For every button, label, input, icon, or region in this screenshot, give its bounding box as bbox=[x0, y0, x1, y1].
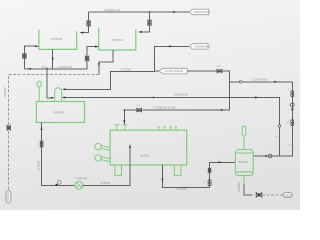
wire blowdown inlet to BD001 bbox=[263, 154, 272, 158]
off-page connector DRAIN bottom-left bbox=[6, 191, 11, 203]
svg-text:N.C.: N.C. bbox=[288, 145, 293, 147]
boiler leg right bbox=[174, 165, 181, 175]
arrow down on blowdown drop bbox=[161, 179, 163, 183]
svg-text:CST0080 1IN: CST0080 1IN bbox=[104, 8, 120, 12]
burner 2 bbox=[95, 155, 110, 162]
arrow on blowdown into BD001 bbox=[218, 161, 222, 163]
wire tanks fill header bbox=[24, 68, 87, 70]
svg-text:BDV001: BDV001 bbox=[239, 160, 249, 164]
arrow into dome base bbox=[62, 96, 66, 98]
svg-text:PLANT STEAM: PLANT STEAM bbox=[165, 69, 183, 73]
arrow into FWT001 bottom bbox=[95, 46, 99, 48]
svg-text:1": 1" bbox=[204, 170, 206, 172]
tank FWT002 bbox=[39, 30, 77, 50]
node junction on fill header bbox=[46, 68, 48, 70]
svg-text:CST0080: CST0080 bbox=[37, 160, 40, 171]
svg-text:CST0080 1IN SCH40: CST0080 1IN SCH40 bbox=[153, 107, 177, 110]
valve on blowdown riser bbox=[208, 168, 211, 186]
burner 1 bbox=[95, 143, 110, 150]
fitting circle on branch east bbox=[239, 81, 241, 83]
wire pump discharge into boiler bbox=[83, 145, 130, 185]
arrow into dome top bbox=[62, 88, 66, 90]
flange on boiler feed stub bbox=[114, 125, 128, 130]
vessel deaerator FWD001 bbox=[36, 102, 84, 123]
wire deaerator outlet to pump bbox=[42, 123, 76, 186]
arrow on service water header bbox=[173, 11, 177, 13]
node corner dot line C bbox=[123, 109, 125, 111]
svg-text:FWT001: FWT001 bbox=[53, 111, 65, 115]
node junction on service header bbox=[149, 11, 151, 13]
svg-text:N.C.: N.C. bbox=[276, 137, 281, 139]
valve globe lower on right drop bbox=[291, 120, 294, 126]
svg-text:CST0080: CST0080 bbox=[177, 188, 188, 191]
fitting circle on header B drop bbox=[278, 125, 280, 127]
arrow on fill header bbox=[27, 68, 31, 70]
valve on pump suction bbox=[40, 141, 43, 147]
valve on line C bbox=[137, 108, 142, 112]
svg-text:1": 1" bbox=[204, 182, 206, 184]
valve on FWT002 fill drop bbox=[87, 21, 90, 27]
svg-text:CST0080: CST0080 bbox=[238, 182, 241, 193]
arrow on header B bbox=[255, 96, 259, 98]
svg-text:CST0080 1IN: CST0080 1IN bbox=[58, 66, 73, 69]
valve ball on BD001 drain bbox=[256, 193, 262, 197]
svg-text:CST0080 1IN: CST0080 1IN bbox=[174, 94, 189, 97]
valve on plant steam line bbox=[217, 69, 222, 73]
wire FWT002 fill inlet bottom bbox=[24, 46, 36, 69]
wire drain header dashed bbox=[8, 74, 99, 190]
check valve before pump bbox=[55, 180, 61, 186]
wire steam branch east bbox=[230, 82, 293, 156]
off-page connector PLANT STEAM bbox=[158, 68, 187, 74]
boiler BL001 bbox=[110, 130, 187, 165]
valve on left drain line bbox=[7, 125, 10, 130]
safety valve stubs on boiler top bbox=[157, 127, 177, 130]
arrow on FWT001 drain downcomer bbox=[98, 63, 100, 67]
svg-text:1": 1" bbox=[37, 144, 39, 146]
arrow into dome left bbox=[51, 97, 55, 99]
svg-text:BL001: BL001 bbox=[141, 153, 150, 157]
arrow on FWT002 drain bbox=[52, 58, 54, 62]
svg-text:DRAIN: DRAIN bbox=[6, 193, 10, 201]
off-page connector SERVICE WATER bbox=[189, 9, 210, 15]
relief vent pill on deaerator bbox=[37, 81, 41, 101]
svg-text:1": 1" bbox=[288, 89, 290, 91]
off-page connector CONDENSATE bbox=[189, 44, 210, 50]
valve ball on FWT001 inlet riser bbox=[85, 56, 89, 61]
wire FWT002 drain bbox=[52, 49, 54, 68]
svg-text:CST0080 1IN: CST0080 1IN bbox=[253, 79, 268, 82]
arrow on line C near corner bbox=[219, 109, 223, 111]
vessel BD001 neck bbox=[242, 126, 246, 149]
wire BD001 bottom drain bbox=[244, 184, 253, 195]
arrow on condensate line to label bbox=[169, 45, 173, 47]
arrow into FWT001 top bbox=[138, 31, 142, 33]
wire dashed to drain label bbox=[262, 194, 283, 196]
arrow on branch east bbox=[274, 81, 278, 83]
wire FWT001 drain bbox=[99, 50, 113, 74]
svg-text:DRAIN: DRAIN bbox=[285, 194, 293, 197]
tank FWT001 bbox=[99, 28, 136, 50]
svg-text:1": 1" bbox=[83, 24, 85, 26]
node junction on header B bbox=[153, 97, 155, 99]
arrow into FWT002 top bbox=[80, 32, 84, 34]
wire deaerator dome feed bbox=[47, 69, 52, 98]
wire steam header B bbox=[64, 98, 279, 157]
off-page connector DRAIN bottom-right bbox=[283, 193, 292, 198]
svg-text:CST0080: CST0080 bbox=[121, 69, 132, 72]
vessel BD001 body bbox=[235, 150, 253, 176]
valve globe upper on right drop bbox=[291, 91, 294, 97]
valve ball on FWT002 inlet riser bbox=[23, 54, 27, 59]
deaerator dome bbox=[55, 88, 62, 102]
arrow up inside boiler bbox=[129, 144, 131, 148]
svg-text:CONDENSATE: CONDENSATE bbox=[194, 45, 211, 48]
wire condensate return line A bbox=[65, 46, 190, 89]
wire BD001 drain green stub bbox=[243, 176, 245, 184]
arrow up on deaerator outlet bbox=[40, 126, 42, 130]
svg-text:POT: POT bbox=[217, 66, 222, 68]
valve control mid on right drop bbox=[290, 103, 294, 111]
wire FWT001 fill inlet bottom bbox=[87, 47, 96, 69]
svg-text:FWT002: FWT002 bbox=[51, 37, 63, 41]
svg-text:FWT001: FWT001 bbox=[112, 38, 124, 42]
wire service water header bbox=[89, 11, 189, 13]
svg-text:CST0080: CST0080 bbox=[4, 87, 7, 98]
arrow into FWT002 bottom bbox=[35, 45, 39, 47]
svg-text:1": 1" bbox=[288, 105, 290, 107]
wire fill drop to FWT002 bbox=[81, 12, 89, 33]
valve on FWT001 fill drop bbox=[148, 20, 151, 26]
svg-text:FWP001: FWP001 bbox=[76, 177, 88, 181]
wire boiler blowdown bbox=[162, 162, 235, 187]
wire plant steam line R bbox=[124, 71, 229, 124]
arrow down into boiler stub bbox=[123, 120, 125, 124]
wire plant steam stub bbox=[154, 70, 158, 72]
svg-text:N.C.: N.C. bbox=[137, 105, 142, 107]
boiler leg left bbox=[115, 165, 122, 175]
svg-text:SERVICE WTR: SERVICE WTR bbox=[194, 11, 211, 14]
pump FWP001 bbox=[75, 182, 83, 190]
svg-text:CST0080: CST0080 bbox=[100, 182, 111, 185]
wire fill drop to FWT001 bbox=[139, 12, 149, 32]
